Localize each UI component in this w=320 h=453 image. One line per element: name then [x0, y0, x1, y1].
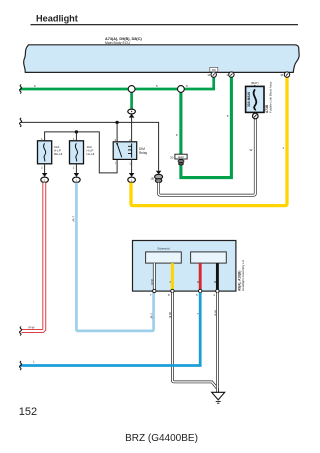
svg-text:1: 1 — [282, 146, 284, 150]
svg-text:2: 2 — [73, 166, 75, 170]
wire green loop (band pin 1 down, left, up) — [181, 77, 232, 178]
wire fuse2 bottom stub — [75, 164, 77, 173]
node junction dot rail A — [115, 121, 118, 124]
svg-text:11: 11 — [207, 73, 210, 77]
svg-text:5: 5 — [156, 84, 158, 88]
wire junction to relay pin 6 — [116, 122, 118, 141]
wire L strong blue — [20, 293, 200, 366]
connector above relay pin 2 — [128, 109, 136, 142]
svg-text:5: 5 — [227, 114, 229, 118]
node junction circle on green rail 2 — [178, 86, 185, 93]
svg-text:Fusible Link Block Assy: Fusible Link Block Assy — [268, 81, 272, 113]
fusible link B47 box — [246, 86, 264, 112]
svg-text:W: W — [249, 148, 252, 152]
green rail wire (band pin 11 down and left) — [20, 77, 214, 90]
svg-text:152: 152 — [19, 406, 37, 418]
svg-text:31: 31 — [280, 73, 284, 77]
fuse H-LP LH box — [70, 141, 84, 164]
band pin 31 — [280, 72, 289, 77]
svg-text:D9: D9 — [212, 68, 216, 72]
svg-text:7: 7 — [115, 161, 117, 165]
wire yellow relay to band pin 31 — [131, 77, 287, 206]
svg-text:L-W: L-W — [72, 216, 76, 222]
svg-text:1: 1 — [226, 73, 228, 77]
svg-text:EA2: EA2 — [178, 155, 184, 159]
svg-text:8: 8 — [168, 293, 170, 297]
node EA2 box on green wire — [170, 154, 187, 159]
svg-text:7: 7 — [150, 293, 152, 297]
svg-text:Headlight: Headlight — [36, 14, 78, 24]
svg-text:5: 5 — [186, 84, 188, 88]
break squiggle rail A — [19, 118, 21, 127]
wire labels green rail — [34, 84, 188, 88]
connector below relay — [128, 173, 136, 183]
wire relay pin 1 down — [131, 159, 133, 173]
ECU band A73 Main Body ECU — [24, 45, 300, 73]
relay DIM relay box — [113, 142, 137, 160]
wire rail A black — [20, 122, 159, 170]
wire green stub junction to relay connector — [130, 89, 133, 110]
headlight bottom pins — [153, 289, 219, 292]
svg-text:L-W: L-W — [150, 313, 154, 319]
break squiggle green rail — [19, 85, 21, 94]
svg-text:30A MAIN: 30A MAIN — [247, 92, 251, 107]
fuse H-LP RH box — [38, 141, 52, 164]
headlight assembly box — [133, 241, 236, 292]
svg-text:B: B — [213, 281, 217, 283]
wire R inside headlight — [199, 263, 202, 291]
svg-text:W-B: W-B — [150, 279, 154, 285]
svg-text:6: 6 — [34, 84, 36, 88]
svg-text:W-B: W-B — [213, 310, 217, 316]
svg-text:20: 20 — [170, 155, 174, 159]
svg-text:RH-HI: RH-HI — [54, 152, 62, 156]
svg-text:LH-HI: LH-HI — [87, 152, 95, 156]
pin 1 tick fusible link — [254, 85, 256, 87]
connector below fuse 2 — [73, 173, 81, 183]
break squiggle blue wire — [19, 361, 21, 370]
svg-text:R-W: R-W — [29, 326, 35, 330]
wire W-B headlight pin2 to ground — [172, 293, 217, 392]
wire white 1B to fusible link — [159, 119, 256, 195]
svg-text:Solenoid: Solenoid — [157, 247, 169, 251]
connector below fuse 1 — [41, 173, 49, 183]
band pin 1 — [226, 72, 234, 77]
title underline — [31, 24, 299, 26]
label fuse 1 — [54, 145, 62, 156]
svg-text:6: 6 — [176, 133, 178, 137]
wire Y inside headlight — [171, 263, 174, 291]
wire R-W red double — [22, 183, 45, 332]
band pin 11 — [207, 72, 216, 77]
inner block solenoid — [146, 252, 182, 263]
wire labels lower — [33, 310, 217, 364]
pin numbers headlight — [150, 293, 215, 297]
wire labels inside headlight — [150, 279, 217, 285]
wire B inside headlight — [216, 263, 219, 291]
svg-text:1: 1 — [129, 161, 131, 165]
connector below fusible link — [253, 113, 259, 119]
svg-text:2: 2 — [41, 166, 43, 170]
pin labels fuses — [41, 137, 75, 170]
node junction dot rail B — [75, 130, 78, 133]
svg-text:L: L — [33, 360, 35, 364]
break squiggle red wire — [19, 327, 21, 336]
connector 1B inline — [150, 171, 162, 183]
wire junction to fuse 2 — [75, 132, 77, 141]
svg-text:Relay: Relay — [139, 151, 148, 155]
connector blob below EA2 — [178, 160, 184, 165]
svg-text:Y: Y — [168, 281, 172, 283]
inner block 2 — [191, 252, 227, 263]
wire L-W pale blue — [76, 183, 153, 331]
svg-text:Headlight Assembly LH: Headlight Assembly LH — [241, 260, 245, 291]
svg-text:R: R — [196, 281, 200, 283]
ground symbol — [212, 392, 225, 403]
wire W-B inside headlight — [153, 263, 156, 291]
svg-text:BRZ (G4400BE): BRZ (G4400BE) — [125, 433, 198, 444]
svg-text:5: 5 — [196, 293, 198, 297]
svg-text:W-B: W-B — [168, 312, 172, 318]
label fuse 2 — [87, 145, 95, 156]
wire fuse1 bottom stub — [44, 164, 46, 173]
svg-text:4: 4 — [213, 293, 215, 297]
node junction circle on green rail — [128, 86, 135, 93]
label D9 box — [210, 67, 218, 72]
wire rail B fuses to relay pin 7 — [45, 132, 118, 173]
svg-text:1B: 1B — [150, 177, 154, 181]
pin labels relay — [115, 138, 132, 165]
svg-text:(B47): (B47) — [251, 81, 259, 85]
wire W-B headlight pin4 to ground — [216, 293, 219, 392]
